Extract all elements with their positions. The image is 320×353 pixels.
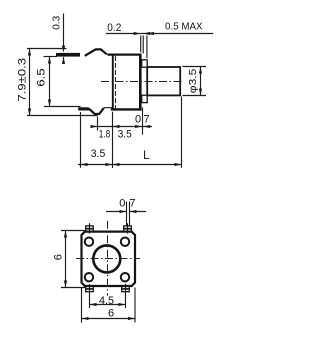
switch base square	[82, 232, 136, 286]
bottom lead bend (gull wing)	[89, 108, 104, 114]
body left edge	[112, 54, 114, 111]
dimension row 1: 1.8 / 3.5 / 0.7	[92, 108, 153, 169]
top lead bend (gull wing)	[85, 49, 107, 55]
svg-text:7: 7	[143, 114, 149, 126]
svg-text:6: 6	[108, 308, 114, 320]
plunger stem	[147, 67, 180, 95]
dimension 0.2 / 0.5 MAX (collar protrusion)	[106, 34, 213, 59]
dimension 4.5 (terminal spacing)	[90, 294, 126, 308]
corner terminal hole top-left	[85, 238, 93, 246]
svg-text:7: 7	[129, 198, 135, 210]
body right edge	[139, 54, 142, 111]
corner terminal hole bottom-left	[85, 273, 93, 281]
svg-text:4.5: 4.5	[99, 295, 114, 307]
svg-text:0.3: 0.3	[51, 16, 63, 30]
svg-text:φ3.5: φ3.5	[188, 68, 199, 93]
dimension row 2: 3.5 / L	[78, 97, 182, 168]
bottom lead foot	[78, 107, 89, 110]
dimension 0.3 (lead thickness)	[63, 14, 65, 64]
corner terminal hole bottom-right	[121, 273, 129, 281]
dimension line	[92, 126, 153, 128]
centerline vertical (bottom view)	[107, 221, 109, 296]
svg-text:L: L	[143, 150, 150, 162]
dimension φ3.5 (stem diameter)	[183, 67, 207, 96]
ext: stem end	[181, 97, 183, 168]
extension line bottom	[44, 106, 81, 108]
body top edge	[107, 53, 141, 55]
svg-text:0: 0	[119, 198, 125, 210]
body seam (dashed parting line)	[115, 56, 117, 109]
bottom lead stub left	[86, 284, 94, 294]
stem collar upper tab	[142, 60, 148, 67]
bottom lead to body thin edge	[104, 107, 114, 109]
extension line top	[44, 56, 58, 58]
extension line top	[27, 48, 67, 50]
dimension 6.5 (body height)	[44, 57, 81, 107]
ext: lead knee	[97, 117, 99, 131]
svg-text:3.5: 3.5	[91, 148, 106, 160]
body bottom edge	[111, 108, 142, 110]
top lead stub left	[86, 223, 94, 233]
switch body outline (side view)	[107, 54, 141, 111]
dimension 6 (body height, left)	[61, 231, 86, 288]
top lead stub right	[124, 223, 132, 233]
svg-text:6: 6	[53, 254, 65, 260]
dimension 7.9±0.3 (overall lead span)	[27, 49, 98, 116]
extension lines	[140, 36, 142, 53]
corner terminal hole top-right	[121, 238, 129, 246]
svg-text:0.5 MAX: 0.5 MAX	[165, 20, 203, 32]
dimension line	[29, 49, 31, 116]
svg-text:7.9±0.3: 7.9±0.3	[17, 58, 29, 102]
ext: lead foot plane	[80, 112, 82, 168]
svg-text:1.8: 1.8	[99, 129, 111, 141]
svg-text:3.5: 3.5	[118, 129, 132, 141]
center stem circle	[93, 245, 120, 272]
ext: body left edge	[112, 112, 114, 168]
dimension 6 (body width, bottom)	[82, 288, 136, 323]
stem collar lower tab	[142, 95, 148, 102]
dimension line	[49, 57, 51, 107]
svg-text:0.2: 0.2	[107, 22, 121, 34]
dimension 0.7 (lead width, bottom view)	[106, 202, 146, 227]
dimension line	[78, 164, 182, 166]
centerline (side view)	[101, 81, 183, 83]
extension line bottom	[27, 115, 98, 117]
centerline horizontal (bottom view)	[76, 258, 140, 260]
ext: collar step	[142, 108, 144, 135]
svg-text:0: 0	[135, 114, 141, 126]
bottom lead stub right	[122, 284, 130, 294]
top lead foot	[56, 53, 80, 57]
svg-text:6.5: 6.5	[35, 68, 47, 87]
